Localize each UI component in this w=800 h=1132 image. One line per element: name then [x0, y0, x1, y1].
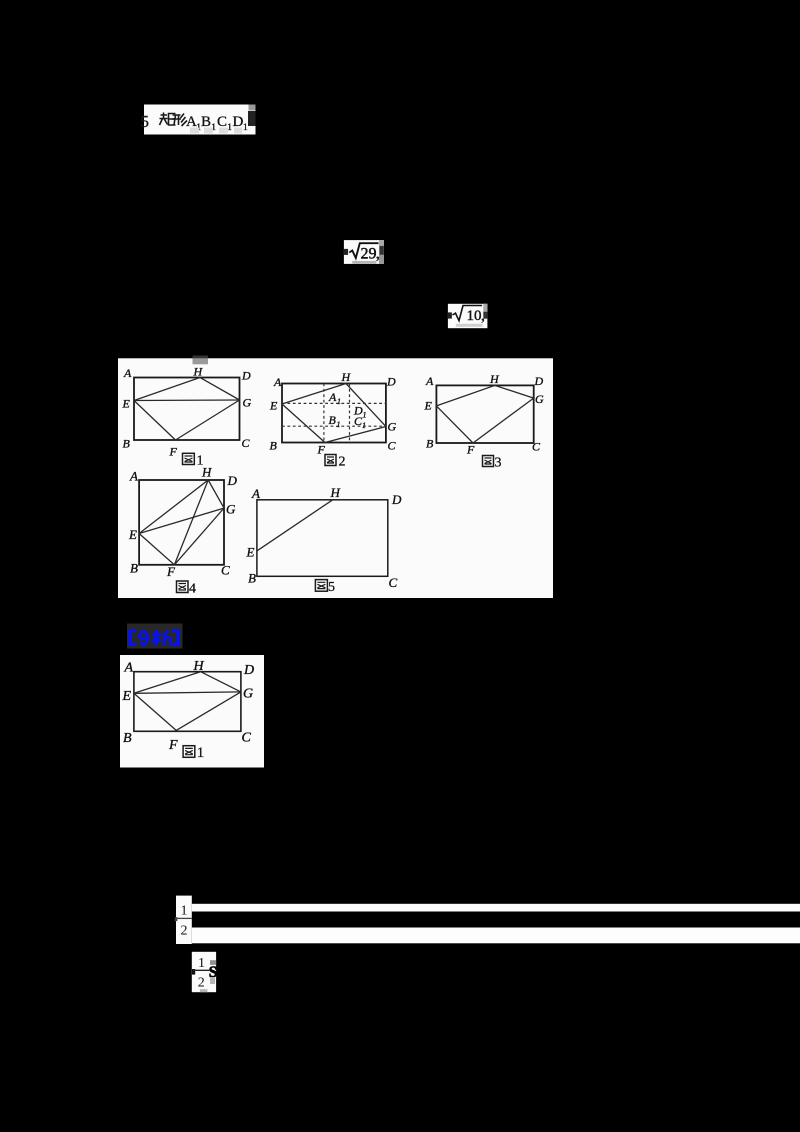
blue bracket right [172, 630, 180, 647]
fig3 caption 图3 [483, 456, 502, 471]
svg-text:C: C [221, 563, 230, 578]
hanzi 形 [172, 114, 187, 127]
svg-text:C: C [217, 114, 227, 130]
svg-text:C: C [389, 575, 398, 590]
blue bracket left [129, 630, 137, 647]
top problem text white box [144, 105, 256, 135]
gray patches around S [200, 960, 216, 992]
svg-text:A: A [124, 661, 134, 676]
svg-text:G: G [243, 396, 252, 410]
fig4 caption 图4 [177, 581, 197, 597]
fig2 inner labels A1 D1 B1 C1 [328, 390, 367, 430]
panel2 line FG [176, 692, 241, 731]
svg-text:D: D [534, 374, 544, 388]
A1B1C1D1 subscripted letters [186, 114, 248, 133]
fig1 line EG [134, 399, 240, 402]
svg-text:1: 1 [337, 420, 341, 429]
long white bar upper (erased text line) [192, 904, 800, 912]
svg-text:1: 1 [363, 411, 367, 420]
sqrt(10) formula box [448, 304, 488, 328]
svg-text:1: 1 [362, 421, 366, 430]
gray smudges under subscripts [190, 128, 242, 134]
fig2 caption 图2 [325, 455, 346, 470]
fig1 line HG [200, 378, 240, 401]
blue hanzi 析 [153, 630, 171, 646]
svg-text:2: 2 [198, 976, 205, 991]
svg-text:D: D [227, 473, 238, 488]
radical sign of sqrt10 [453, 306, 486, 325]
fig2 dashed horizontal through E [282, 402, 386, 404]
svg-text:C: C [532, 440, 541, 454]
svg-text:B: B [329, 413, 337, 427]
long white bar lower (erased text line) [192, 928, 800, 944]
svg-text:B: B [130, 561, 138, 576]
svg-text:A: A [129, 469, 138, 484]
fraction 1/2 S white box (second equation line) [192, 952, 218, 992]
svg-text:D: D [386, 375, 396, 389]
svg-text:A: A [425, 374, 434, 388]
fig5 labels [246, 485, 403, 590]
svg-text:H: H [201, 465, 212, 480]
svg-text:B: B [123, 437, 131, 451]
svg-text:C: C [242, 731, 252, 746]
hanzi 矩 [160, 113, 176, 126]
panel2 line HG [201, 672, 241, 692]
svg-text:G: G [535, 392, 544, 406]
fig1 line FG [176, 400, 240, 440]
partial digit 5 at left edge [141, 112, 150, 131]
svg-text:H: H [193, 365, 204, 379]
fig1 line EH [134, 378, 200, 401]
fig4 rectangle ABCD [139, 480, 224, 565]
svg-text:H: H [489, 372, 500, 386]
svg-text:E: E [122, 689, 132, 704]
fig1 rectangle ABCD [134, 378, 240, 441]
svg-text:4: 4 [189, 582, 196, 597]
svg-text:5: 5 [141, 112, 150, 131]
second white panel (answer figure) [120, 655, 264, 768]
svg-text:29: 29 [361, 245, 377, 262]
svg-text:F: F [466, 443, 475, 457]
fig2 rectangle ABCD [282, 384, 386, 443]
svg-text:A: A [251, 486, 260, 501]
svg-text:,: , [376, 246, 380, 263]
fig2 dashed vertical through F [323, 384, 325, 443]
svg-text:F: F [166, 564, 176, 579]
svg-text:E: E [128, 527, 137, 542]
fig4 labels [128, 465, 238, 580]
blue analysis label dark box [127, 624, 183, 649]
svg-text:1: 1 [197, 745, 205, 761]
fig3 rectangle ABCD [436, 385, 533, 443]
fig4 quadrilateral EHGF [139, 480, 224, 565]
fig1 line EF [134, 401, 176, 441]
fig3 labels [424, 372, 545, 457]
panel2 labels [122, 659, 255, 753]
radical sign of sqrt29 [349, 243, 380, 263]
fraction 1/2 white box (first equation line) [176, 896, 192, 944]
svg-text:H: H [330, 485, 341, 500]
svg-text:G: G [388, 420, 397, 434]
svg-text:B: B [123, 731, 132, 746]
panel2 rectangle ABCD [134, 672, 241, 732]
sqrt(29) formula box [344, 240, 384, 264]
fig4 diagonal HF [174, 480, 208, 565]
svg-text:G: G [226, 502, 236, 517]
svg-text:2: 2 [339, 455, 346, 470]
svg-text:H: H [341, 370, 352, 384]
blue hanzi 分 [139, 631, 150, 646]
fig5 line EH [257, 500, 333, 551]
svg-text:E: E [269, 399, 278, 413]
svg-text:3: 3 [495, 456, 502, 471]
svg-text:E: E [424, 399, 433, 413]
svg-text:A: A [328, 390, 337, 404]
fig2 corner and vertex labels [269, 370, 397, 457]
gray smudge at panel top [193, 356, 209, 365]
fig2 dashed horizontal through G [282, 425, 386, 427]
svg-text:E: E [246, 545, 255, 560]
fig1 labels [122, 365, 252, 459]
svg-text:1: 1 [243, 123, 248, 133]
svg-text:D: D [241, 369, 251, 383]
fig1 caption 图1 [183, 453, 204, 468]
panel2 caption 图1 [183, 745, 204, 761]
fig5 caption 图5 [315, 580, 335, 595]
svg-text:D: D [233, 114, 244, 130]
fig3 quadrilateral EHGF [436, 385, 533, 443]
main white panel with five figures [118, 358, 553, 598]
svg-text:F: F [317, 443, 326, 457]
svg-text:C: C [388, 439, 397, 453]
svg-text:D: D [243, 663, 254, 678]
svg-text:1: 1 [181, 903, 188, 918]
small tick left of sqrt10 [448, 312, 452, 318]
svg-text:B: B [201, 114, 211, 130]
small tick left of sqrt29 [344, 249, 348, 255]
svg-text:5: 5 [328, 580, 335, 595]
small tick left of fraction 1 [175, 917, 178, 921]
svg-text:F: F [168, 738, 178, 753]
svg-text:G: G [243, 687, 253, 702]
svg-text:B: B [248, 571, 256, 586]
panel2 line EG [134, 692, 241, 693]
dark cut-off hanzi at right edge of box [248, 111, 256, 126]
svg-text:A: A [273, 375, 282, 389]
svg-text:,: , [481, 309, 485, 325]
svg-text:1: 1 [198, 956, 205, 971]
svg-text:2: 2 [181, 923, 188, 938]
fig2 quadrilateral EHGF [282, 384, 386, 443]
panel2 line EH [134, 672, 201, 694]
svg-text:B: B [426, 437, 434, 451]
fig4 diagonal EG [139, 508, 224, 533]
svg-text:B: B [270, 439, 278, 453]
svg-text:10: 10 [467, 308, 482, 324]
svg-text:C: C [242, 436, 251, 450]
fig2 dashed vertical right of H [349, 384, 351, 443]
svg-text:D: D [391, 492, 402, 507]
svg-text:A: A [123, 366, 132, 380]
svg-text:H: H [193, 659, 205, 674]
svg-text:E: E [122, 397, 131, 411]
fig5 rectangle ABCD [257, 500, 388, 577]
svg-text:1: 1 [337, 397, 341, 406]
panel2 line EF [134, 693, 176, 730]
svg-text:F: F [169, 445, 178, 459]
